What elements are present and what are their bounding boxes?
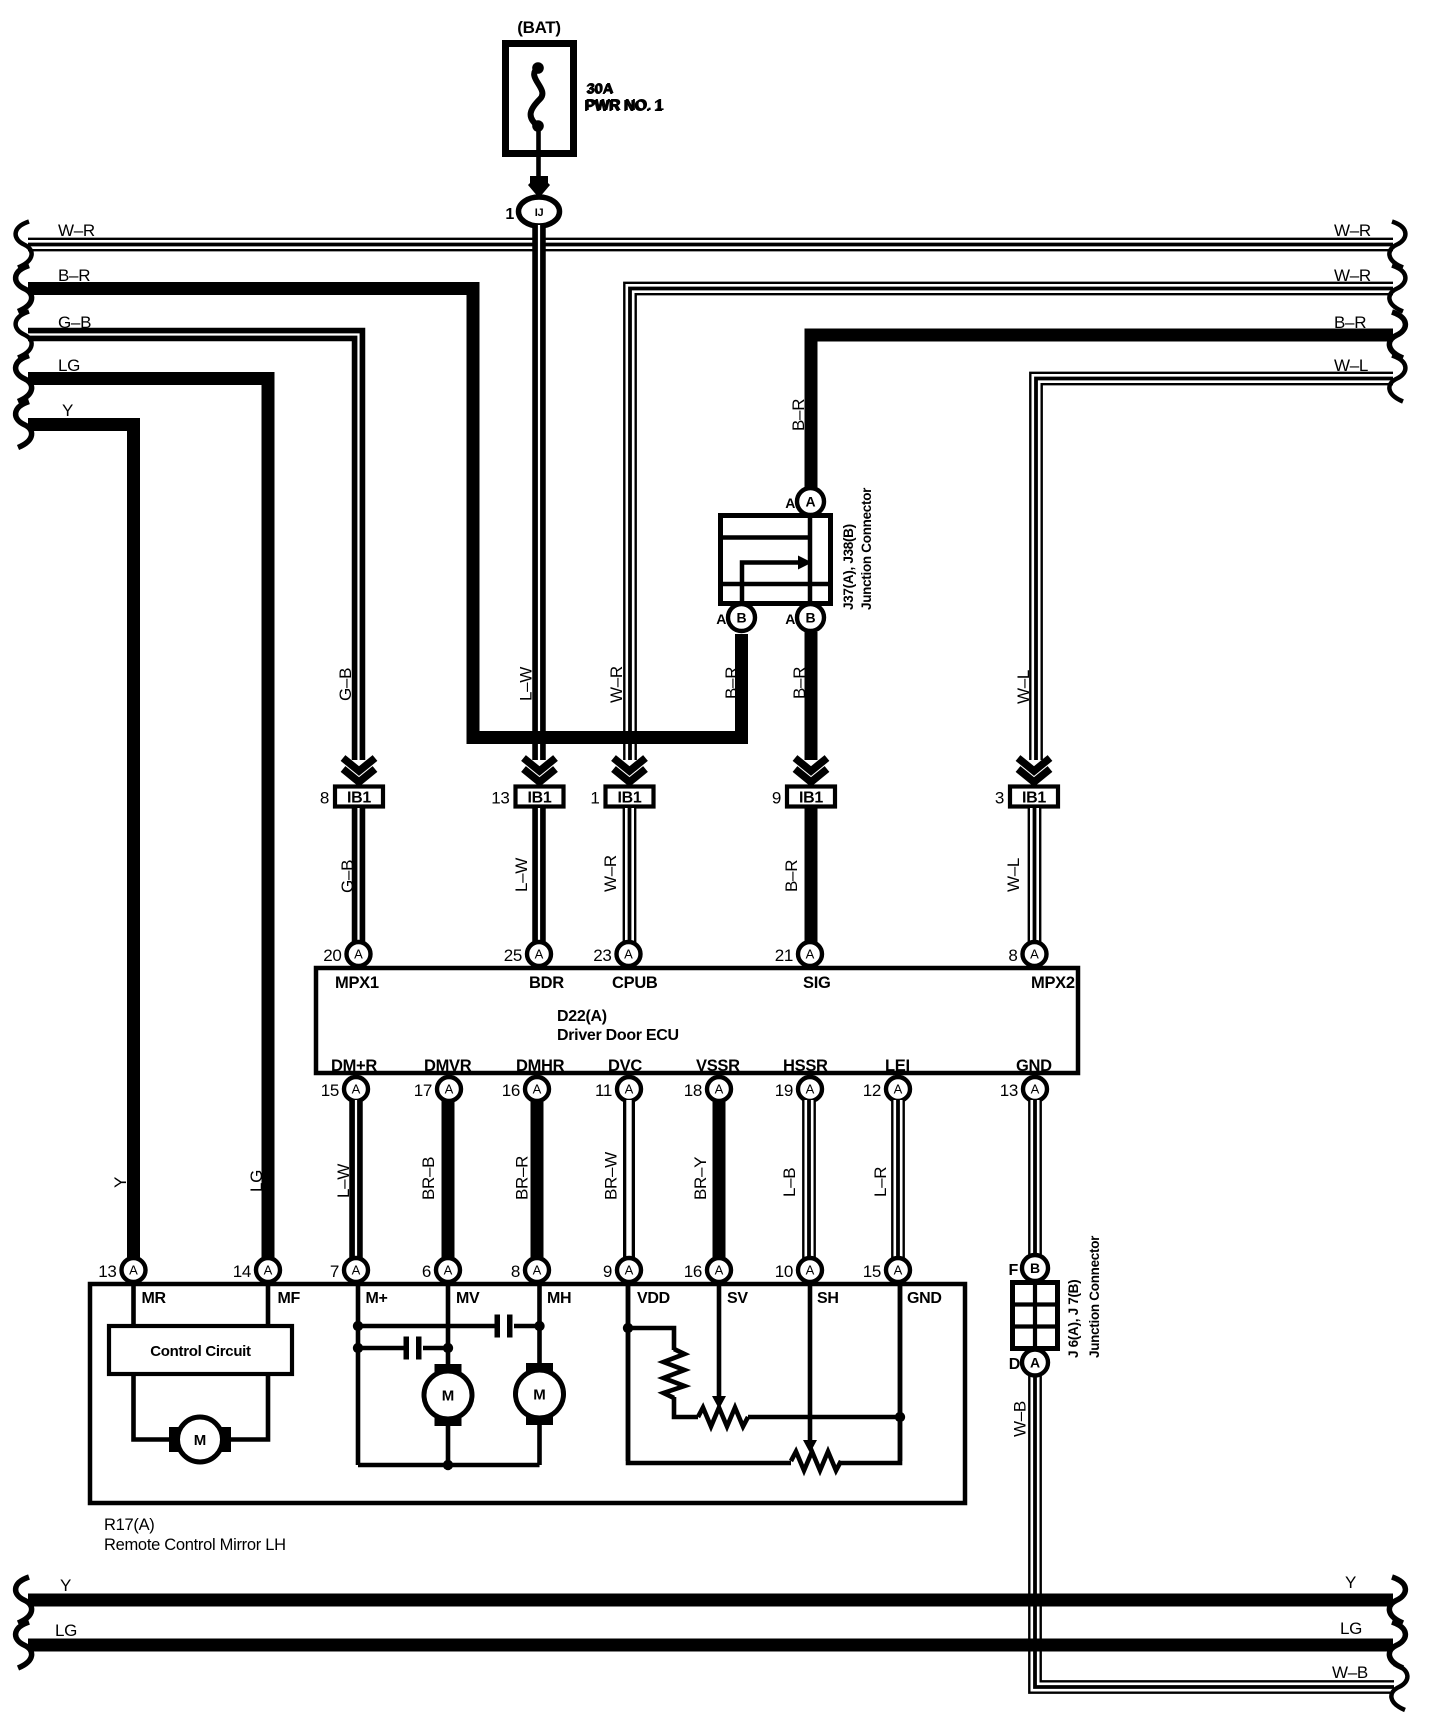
- svg-text:W–R: W–R: [1334, 221, 1371, 240]
- mirror pin 7 circle: [344, 1258, 368, 1282]
- mirror pin stub GND: [898, 1284, 903, 1461]
- svg-text:MV: MV: [456, 1290, 480, 1307]
- svg-text:D: D: [1009, 1356, 1020, 1373]
- svg-text:Driver Door ECU: Driver Door ECU: [557, 1027, 679, 1044]
- mirror pin 10 circle: [798, 1258, 822, 1282]
- svg-text:LEI: LEI: [885, 1057, 910, 1075]
- svg-text:Y: Y: [60, 1576, 71, 1595]
- svg-text:W–R: W–R: [1334, 266, 1371, 285]
- mirror pin stub MV: [446, 1284, 451, 1367]
- mirror pin stub M+: [356, 1284, 361, 1465]
- arrow SH wiper: [803, 1440, 817, 1453]
- connector 1J ellipse: [519, 197, 560, 226]
- arrow into IB1 pin 9: [795, 758, 827, 771]
- svg-text:B–R: B–R: [790, 667, 809, 699]
- svg-text:A: A: [533, 1263, 542, 1278]
- svg-text:B–R: B–R: [58, 266, 90, 285]
- svg-text:L–W: L–W: [512, 858, 531, 892]
- svg-text:J 6(A), J 7(B): J 6(A), J 7(B): [1066, 1280, 1081, 1358]
- junction connector J6 J7 box: [1013, 1283, 1058, 1349]
- svg-text:IB1: IB1: [1022, 790, 1046, 807]
- svg-text:7: 7: [330, 1262, 339, 1281]
- mirror pin stub SH: [808, 1284, 813, 1443]
- svg-text:9: 9: [772, 789, 781, 808]
- svg-text:A: A: [1030, 1355, 1040, 1371]
- wire L–W ECU to mirror: [349, 1100, 363, 1261]
- mirror pin stub MR: [131, 1284, 136, 1326]
- svg-text:Remote Control Mirror LH: Remote Control Mirror LH: [104, 1536, 286, 1554]
- wire control circuit to motor right: [228, 1374, 268, 1440]
- svg-text:M: M: [442, 1388, 455, 1405]
- svg-text:IB1: IB1: [799, 790, 823, 807]
- arrow into IB1 pin 3: [1018, 758, 1050, 771]
- svg-text:20: 20: [323, 946, 341, 965]
- svg-text:DMHR: DMHR: [516, 1057, 565, 1075]
- svg-text:B: B: [1030, 1260, 1040, 1276]
- wire BR–W ECU to mirror: [623, 1100, 635, 1261]
- junction connector internal L branch with arrow: [742, 563, 800, 604]
- junction connector J37 J38 box: [721, 516, 831, 604]
- ECU pin 21 SIG circle: [798, 942, 822, 966]
- svg-text:W–L: W–L: [1334, 356, 1368, 375]
- arrow into IB1 pin 1: [614, 758, 646, 771]
- connector IB1 pin 13 box: [516, 787, 564, 807]
- svg-text:11: 11: [595, 1081, 612, 1100]
- ECU pin 23 CPUB circle: [617, 942, 641, 966]
- wire L–R ECU to mirror: [891, 1100, 905, 1261]
- svg-text:Control Circuit: Control Circuit: [150, 1343, 251, 1360]
- svg-text:IB1: IB1: [528, 790, 552, 807]
- svg-text:Junction Connector: Junction Connector: [859, 487, 874, 610]
- svg-text:19: 19: [775, 1081, 793, 1100]
- svg-text:MPX1: MPX1: [335, 974, 379, 992]
- svg-text:A: A: [535, 947, 544, 962]
- arrow into IB1 pin 8: [343, 758, 375, 771]
- svg-text:R17(A): R17(A): [104, 1516, 154, 1534]
- mirror pin stub MF: [266, 1284, 271, 1326]
- connector IB1 pin 1 box: [606, 787, 654, 807]
- arrowhead into connector 1J: [528, 176, 550, 198]
- wire Y bus to mirror MR: [28, 425, 134, 1262]
- svg-text:L–W: L–W: [517, 667, 536, 701]
- junction connector pin B bottom-right: [797, 604, 824, 631]
- node M+ row1: [353, 1321, 363, 1331]
- ECU pin 17 circle: [437, 1077, 461, 1101]
- svg-text:G–B: G–B: [58, 313, 91, 332]
- svg-text:B–R: B–R: [789, 399, 808, 431]
- svg-text:MPX2: MPX2: [1031, 974, 1075, 992]
- svg-text:13: 13: [1000, 1081, 1018, 1100]
- svg-text:A: A: [444, 1263, 453, 1278]
- capacitor row1: [495, 1315, 501, 1338]
- svg-text:SV: SV: [727, 1290, 748, 1307]
- svg-text:18: 18: [684, 1081, 702, 1100]
- ECU pin 15 circle: [344, 1077, 368, 1101]
- control circuit box: [109, 1326, 292, 1374]
- junction connector internal bus vertical: [808, 516, 813, 603]
- junction J6 pin D bottom: [1022, 1350, 1048, 1376]
- svg-text:17: 17: [414, 1081, 432, 1100]
- ECU pin 12 circle: [886, 1077, 910, 1101]
- junction connector internal bus horizontal 1: [722, 535, 810, 540]
- svg-text:W–L: W–L: [1004, 858, 1023, 892]
- arrow into IB1 pin 13: [524, 758, 556, 771]
- svg-text:IB1: IB1: [618, 790, 642, 807]
- svg-text:L–W: L–W: [334, 1164, 353, 1198]
- svg-text:W–R: W–R: [58, 221, 95, 240]
- svg-text:L–R: L–R: [871, 1167, 890, 1197]
- svg-text:DM+R: DM+R: [331, 1057, 377, 1075]
- svg-text:LG: LG: [58, 356, 80, 375]
- svg-text:A: A: [715, 1263, 724, 1278]
- capacitor row2: [404, 1337, 410, 1360]
- mirror pin 8 circle: [525, 1258, 549, 1282]
- svg-text:LG: LG: [55, 1621, 77, 1640]
- wire resistor to pot1: [674, 1397, 698, 1417]
- wire G-B IB1 to ECU MPX1: [352, 808, 366, 944]
- svg-text:M+: M+: [366, 1290, 388, 1307]
- svg-text:A: A: [806, 1082, 815, 1097]
- mirror pin stub MH: [537, 1284, 542, 1366]
- svg-text:CPUB: CPUB: [612, 974, 658, 992]
- wire B-R bus right to junction connector: [811, 335, 1393, 490]
- wire L-W connector to IB1: [532, 225, 546, 760]
- svg-text:A: A: [129, 1263, 138, 1278]
- wire L-W IB1 to ECU BDR: [532, 808, 546, 944]
- svg-text:A: A: [894, 1263, 903, 1278]
- wire LG bus bottom: [28, 1639, 1393, 1652]
- svg-text:15: 15: [863, 1262, 881, 1281]
- svg-text:BR–Y: BR–Y: [691, 1157, 710, 1200]
- mirror pin 15 circle: [886, 1258, 910, 1282]
- ECU pin 18 circle: [707, 1077, 731, 1101]
- svg-text:3: 3: [995, 789, 1004, 808]
- junction connector pin B bottom-left: [728, 604, 755, 631]
- ECU D22(A) box: [316, 968, 1078, 1073]
- svg-text:GND: GND: [1016, 1057, 1052, 1075]
- svg-text:J37(A), J38(B): J37(A), J38(B): [841, 524, 856, 610]
- potentiometer SH zigzag: [791, 1452, 841, 1471]
- svg-text:12: 12: [863, 1081, 881, 1100]
- Y bottom right squiggle: [1389, 1577, 1405, 1623]
- svg-text:A: A: [445, 1082, 454, 1097]
- svg-text:IB1: IB1: [347, 790, 371, 807]
- svg-text:Y: Y: [111, 1177, 130, 1188]
- wire VDD left rail: [628, 1284, 791, 1463]
- wire Y bus bottom: [28, 1594, 1393, 1607]
- svg-text:13: 13: [98, 1262, 116, 1281]
- junction J6 pin F top: [1022, 1255, 1048, 1281]
- svg-text:23: 23: [593, 946, 611, 965]
- ECU pin 13 circle: [1023, 1077, 1047, 1101]
- svg-text:A: A: [354, 947, 363, 962]
- ECU pin 20 MPX1 circle: [347, 942, 371, 966]
- mirror pin 6 circle: [436, 1258, 460, 1282]
- ECU pin 8 MPX2 circle: [1023, 942, 1047, 966]
- svg-text:D22(A): D22(A): [557, 1008, 607, 1025]
- wire G-B bus to IB1: [28, 335, 359, 761]
- wire B-R bus left to junction connector: [28, 289, 742, 738]
- G-B left squiggle: [16, 312, 32, 358]
- svg-text:SIG: SIG: [803, 974, 831, 992]
- B-R left squiggle: [16, 266, 32, 312]
- svg-text:30A: 30A: [587, 80, 614, 97]
- svg-text:14: 14: [233, 1262, 251, 1281]
- svg-text:9: 9: [603, 1262, 612, 1281]
- svg-text:21: 21: [775, 946, 793, 965]
- svg-text:MR: MR: [142, 1290, 167, 1307]
- arrow SV wiper: [712, 1396, 726, 1409]
- svg-text:MH: MH: [547, 1290, 571, 1307]
- svg-text:A: A: [264, 1263, 273, 1278]
- motor M vertical: [435, 1364, 462, 1373]
- svg-text:A: A: [625, 1263, 634, 1278]
- svg-text:LG: LG: [247, 1170, 266, 1192]
- junction connector internal bus horizontal 2: [722, 582, 829, 587]
- svg-text:A: A: [806, 947, 815, 962]
- W-B bottom right squiggle: [1391, 1664, 1407, 1710]
- W-R right squiggle row2: [1389, 266, 1405, 312]
- ECU pin 11 circle: [617, 1077, 641, 1101]
- wire M+ cap row2: [358, 1346, 404, 1351]
- wire B-R junction to IB1: [805, 632, 818, 760]
- svg-text:A: A: [533, 1082, 542, 1097]
- svg-text:B–R: B–R: [1334, 313, 1366, 332]
- svg-text:BDR: BDR: [529, 974, 564, 992]
- svg-text:DVC: DVC: [608, 1057, 642, 1075]
- svg-text:HSSR: HSSR: [783, 1057, 828, 1075]
- svg-text:M: M: [533, 1387, 546, 1404]
- wire control circuit to motor left: [134, 1374, 173, 1440]
- svg-text:A: A: [785, 611, 795, 627]
- wire VDD to resistor: [628, 1328, 674, 1350]
- wire W-B junction to bottom bus: [1035, 1374, 1394, 1687]
- svg-text:W–L: W–L: [1014, 670, 1033, 704]
- svg-text:W–B: W–B: [1011, 1401, 1030, 1437]
- svg-text:B–R: B–R: [782, 860, 801, 892]
- node rail MV: [443, 1460, 453, 1470]
- svg-text:A: A: [352, 1263, 361, 1278]
- svg-text:8: 8: [1008, 946, 1017, 965]
- node MH row1: [534, 1321, 544, 1331]
- mirror pin 14 circle: [256, 1258, 280, 1282]
- node M+ row2: [353, 1343, 363, 1353]
- LG bottom right squiggle: [1389, 1622, 1405, 1668]
- mirror pin 13 circle: [122, 1258, 146, 1282]
- svg-text:B–R: B–R: [722, 667, 741, 699]
- fuse element S-curve: [532, 62, 544, 74]
- ECU pin 16 circle: [525, 1077, 549, 1101]
- mirror pin 16 circle: [707, 1258, 731, 1282]
- svg-text:13: 13: [491, 789, 509, 808]
- mirror pin stub SV: [717, 1284, 722, 1399]
- ECU pin 19 circle: [798, 1077, 822, 1101]
- svg-text:A: A: [624, 947, 633, 962]
- wire L–B ECU to mirror: [802, 1100, 816, 1261]
- svg-text:A: A: [716, 611, 726, 627]
- svg-text:B: B: [736, 610, 746, 626]
- wire BR–B ECU to mirror: [442, 1100, 455, 1261]
- wire pot1 to GND: [748, 1415, 900, 1420]
- junction connector pin A top: [797, 488, 824, 515]
- W-R bus left squiggle: [16, 222, 32, 268]
- svg-text:Y: Y: [62, 401, 73, 420]
- node VDD branch: [623, 1323, 633, 1333]
- svg-text:6: 6: [422, 1262, 431, 1281]
- wire BR–R ECU to mirror: [531, 1100, 544, 1261]
- svg-text:8: 8: [511, 1262, 520, 1281]
- wire W-R bus top: [28, 238, 1393, 252]
- svg-text:(BAT): (BAT): [517, 18, 561, 37]
- wire W-L bus to IB1: [1036, 379, 1393, 761]
- node pot1 GND: [895, 1412, 905, 1422]
- wire W-L IB1 to ECU MPX2: [1028, 808, 1042, 944]
- svg-text:BR–R: BR–R: [513, 1156, 532, 1200]
- svg-text:25: 25: [504, 946, 522, 965]
- svg-text:L–B: L–B: [780, 1168, 799, 1197]
- wire BR–Y ECU to mirror: [713, 1100, 726, 1261]
- wire fuse to connector: [536, 126, 541, 180]
- ECU pin 25 BDR circle: [527, 942, 551, 966]
- svg-text:MF: MF: [278, 1290, 301, 1307]
- svg-text:Y: Y: [1345, 1573, 1356, 1592]
- fuse PWR NO.1 box: [506, 44, 574, 154]
- svg-text:10: 10: [775, 1262, 793, 1281]
- svg-text:16: 16: [684, 1262, 702, 1281]
- svg-text:A: A: [894, 1082, 903, 1097]
- svg-text:G–B: G–B: [336, 668, 355, 701]
- svg-text:15: 15: [321, 1081, 339, 1100]
- Y left squiggle: [16, 402, 32, 448]
- connector IB1 pin 3 box: [1010, 787, 1058, 807]
- svg-text:G–B: G–B: [338, 860, 357, 893]
- svg-text:PWR NO. 1: PWR NO. 1: [586, 97, 665, 114]
- svg-text:LG: LG: [1340, 1619, 1362, 1638]
- W-L right squiggle: [1389, 356, 1405, 402]
- svg-text:1: 1: [590, 789, 599, 808]
- svg-text:A: A: [806, 1263, 815, 1278]
- svg-text:A: A: [625, 1082, 634, 1097]
- svg-text:W–B: W–B: [1332, 1663, 1368, 1682]
- wire M+ cap row1: [358, 1324, 495, 1329]
- wire W-B ECU to junction connector J6: [1028, 1100, 1042, 1257]
- svg-text:A: A: [1030, 947, 1039, 962]
- Y bottom left squiggle: [16, 1577, 32, 1623]
- svg-text:Junction Connector: Junction Connector: [1087, 1235, 1102, 1358]
- svg-text:1: 1: [505, 206, 514, 223]
- wire W-R IB1 to ECU CPUB: [623, 808, 637, 944]
- svg-text:BR–B: BR–B: [419, 1157, 438, 1200]
- motor M horizontal: [526, 1363, 553, 1372]
- wire LG bus to mirror MF: [28, 379, 268, 1262]
- svg-text:16: 16: [502, 1081, 520, 1100]
- mirror R17(A) box: [90, 1284, 965, 1503]
- LG left squiggle: [16, 356, 32, 402]
- svg-text:IJ: IJ: [535, 207, 544, 219]
- wire motor bottom rail: [358, 1463, 540, 1468]
- connector IB1 pin 8 box: [335, 787, 383, 807]
- resistor vertical: [664, 1349, 685, 1398]
- svg-text:A: A: [1031, 1082, 1040, 1097]
- potentiometer SV zigzag: [698, 1408, 748, 1427]
- svg-text:BR–W: BR–W: [602, 1152, 621, 1200]
- LG bottom left squiggle: [16, 1622, 32, 1668]
- svg-text:W–R: W–R: [601, 855, 620, 892]
- svg-text:F: F: [1009, 1262, 1019, 1279]
- svg-text:GND: GND: [907, 1290, 942, 1307]
- svg-text:W–R: W–R: [607, 666, 626, 703]
- svg-text:A: A: [785, 495, 795, 511]
- connector IB1 pin 9 box: [787, 787, 835, 807]
- wire W-R right to IB1: [630, 289, 1393, 761]
- mirror pin 9 circle: [617, 1258, 641, 1282]
- wire B-R IB1 to ECU SIG: [805, 808, 818, 944]
- svg-text:VDD: VDD: [637, 1290, 670, 1307]
- svg-text:M: M: [194, 1432, 207, 1449]
- svg-text:DMVR: DMVR: [424, 1057, 472, 1075]
- svg-text:A: A: [715, 1082, 724, 1097]
- svg-text:B: B: [805, 610, 815, 626]
- wire GND right rail: [839, 1284, 900, 1463]
- svg-text:VSSR: VSSR: [696, 1057, 740, 1075]
- W-R bus right squiggle: [1389, 222, 1405, 268]
- mirror pin stub VDD: [626, 1284, 631, 1461]
- node MV row2: [443, 1343, 453, 1353]
- motor M mirror-select: [169, 1427, 181, 1452]
- svg-text:A: A: [805, 494, 815, 510]
- B-R right squiggle: [1389, 312, 1405, 358]
- svg-text:SH: SH: [817, 1290, 839, 1307]
- svg-text:A: A: [352, 1082, 361, 1097]
- svg-text:8: 8: [320, 789, 329, 808]
